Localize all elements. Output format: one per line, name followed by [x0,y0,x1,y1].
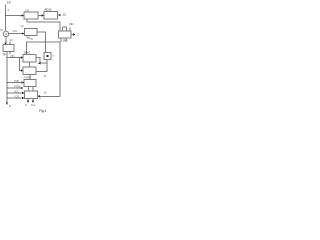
wire control bus vertical [6,51,8,103]
wire GHC right to junction [36,58,47,64]
leader line for label 40 [9,41,11,44]
svg-text:TP: TP [2,52,6,56]
wire LO loop right side down [59,42,61,96]
arrowhead bus down [6,102,8,105]
wire branch to filter F1 [6,15,23,17]
svg-text:C: C [77,33,79,37]
arrowhead pin1 [27,101,29,104]
arrowhead into PLL right [38,95,41,97]
wire antenna vertical [5,5,7,32]
AGC box [3,45,14,52]
crystal X1 box [59,31,72,38]
wire IF out to SAW mixer [37,32,46,53]
svg-text:Fso: Fso [31,103,36,107]
svg-text:2N1: 2N1 [63,39,69,43]
arrowhead stub1 [22,81,25,83]
arrowhead into F1 [22,14,25,16]
svg-text:O: O [25,103,27,107]
wire PLL bottom pin 1 [27,99,29,102]
wire PLL bottom pin 2 [32,99,34,102]
wire branch down to GMD [20,58,22,71]
SAW mixer dot [46,55,48,57]
arrowhead into A1 [42,14,45,16]
wire LO loop bottom to PLL [40,95,61,97]
wire X1 output [71,34,73,36]
GHC box [23,55,36,63]
junction stub1 [6,82,8,84]
wire GHC to GMD connector [29,62,31,67]
svg-text:Fig.1: Fig.1 [39,109,47,113]
TMPS box [24,80,36,87]
svg-text:201: 201 [13,29,18,33]
junction stub2 [6,87,8,89]
junction branch to GMD [19,57,21,59]
wire tap under F1 to crystal X1 [27,19,60,31]
wire SAW mixer down to GMD [36,60,47,72]
arrowhead into IF box [22,32,25,34]
GMD box [23,67,36,75]
SAW mixer box [44,53,51,60]
wire stub3 [7,92,22,94]
arrowhead into GHC [21,56,24,58]
wire TMPS to PLL connector 1 [28,87,30,92]
junction stub4 [6,97,8,99]
arrowhead stub4 [22,97,25,99]
svg-text:CPL: CPL [10,54,16,58]
wire A1 output [58,14,60,16]
wire LO loop top [27,42,61,55]
mixer M1 circle [3,31,9,37]
wire X1 bottom pin 1 [60,38,62,42]
arrowhead output [59,14,62,16]
wire stub4 [7,97,22,99]
wire stub1 [7,82,22,84]
wire X1 bottom pin 2 [65,38,67,42]
IF amp box [25,29,38,36]
leader line bottom right [9,51,11,54]
wire GMD to TMPS connector [29,75,31,80]
wire mixer to IF box [9,33,22,35]
arrowhead into GHC side [38,62,41,64]
wire bus to GHC [7,57,22,59]
svg-text:10: 10 [7,1,11,5]
svg-text:NC: NC [70,22,74,26]
wire F1 to A1 [38,15,42,17]
junction at antenna branch [5,15,7,17]
arrowhead stub2 [21,87,24,89]
mixer M1 cross [4,32,8,36]
wire TMPS to PLL connector 2 [32,87,34,92]
arrowhead X1 output [73,33,76,35]
wire stub2 [7,87,21,89]
amp A1 box [44,12,58,20]
arrowhead into AGC box [4,43,6,46]
junction stub3 [6,92,8,94]
arrowhead stub3 [22,92,25,94]
leader line from NC label to X1 [69,28,71,32]
arrowhead pin2 [32,101,34,104]
junction bus to GHC [6,57,8,59]
filter F1 box [24,12,38,19]
wire mixer M1 down [5,37,7,44]
wire staple over X1 [63,27,67,31]
arrowhead into GMD [21,69,24,71]
PLL box [25,91,38,99]
svg-text:W1: W1 [27,36,31,40]
svg-text:ADJ1: ADJ1 [45,7,52,11]
